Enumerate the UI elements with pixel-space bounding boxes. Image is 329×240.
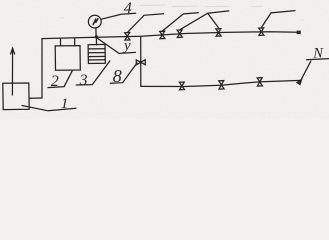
wire tank outlet to riser xyxy=(29,97,42,99)
valve V2 xyxy=(160,31,165,39)
leader valve V2 xyxy=(162,13,198,31)
wire stub to vessel 2 right xyxy=(74,38,76,46)
svg-text:1: 1 xyxy=(61,96,69,112)
valve V3 xyxy=(177,30,182,38)
svg-text:3: 3 xyxy=(79,72,88,89)
valve V6 xyxy=(179,82,184,90)
leader to label y xyxy=(97,38,136,53)
svg-text:8: 8 xyxy=(113,66,122,86)
vessel 2 xyxy=(55,46,80,71)
wire stub heater to pipe xyxy=(95,37,97,45)
valve V8 xyxy=(136,60,145,65)
svg-text:y: y xyxy=(122,38,131,54)
valve V4 xyxy=(216,29,221,37)
leader tent to valve V4 xyxy=(208,13,219,27)
valve V5 xyxy=(259,28,264,36)
valve V9 xyxy=(257,78,262,86)
wire stub to vessel 2 left xyxy=(60,38,62,46)
wire stub gauge xyxy=(95,28,97,37)
svg-text:2: 2 xyxy=(51,73,59,90)
node arrow to N xyxy=(297,80,302,85)
arrow up from tank xyxy=(11,49,13,96)
leader valve V3 tent xyxy=(180,11,229,30)
tank T1 xyxy=(3,83,29,110)
wire top pipe xyxy=(42,32,299,39)
valve V1 xyxy=(125,33,130,41)
underline 2 xyxy=(48,71,72,88)
wire riser up xyxy=(41,39,43,98)
svg-text:N: N xyxy=(312,46,324,62)
leader to label 1 xyxy=(22,106,76,111)
gauge G xyxy=(88,15,101,28)
leader valve V5 xyxy=(261,11,295,28)
wire branch down xyxy=(140,36,142,86)
wire riser to N xyxy=(301,61,311,80)
node top pipe end dot xyxy=(297,31,300,33)
node junction dot xyxy=(95,35,98,38)
heater 3 xyxy=(88,44,105,63)
underline N xyxy=(307,59,329,60)
svg-text:4: 4 xyxy=(124,0,132,17)
wire bottom pipe xyxy=(141,80,301,86)
underline 3 xyxy=(76,61,110,85)
valve V7 xyxy=(219,81,224,90)
leader valve V1 xyxy=(127,14,163,33)
leader valve V8 xyxy=(110,63,137,83)
leader to label 4 xyxy=(101,13,136,19)
